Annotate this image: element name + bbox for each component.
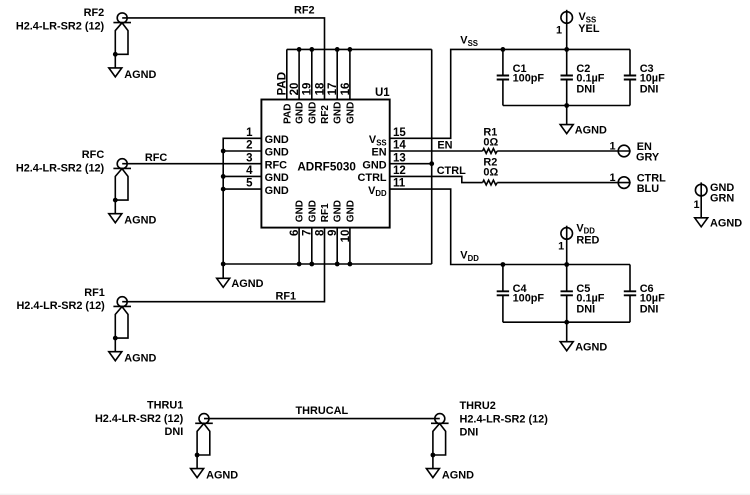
svg-text:0Ω: 0Ω xyxy=(483,137,498,149)
ground AGND VDD bank xyxy=(560,322,607,353)
U1 pin 5 label GND xyxy=(246,178,289,197)
U1 pin 13 label GND xyxy=(362,152,405,171)
U1 bottom pin 9 label GND xyxy=(327,200,344,236)
svg-text:PAD: PAD xyxy=(282,104,293,124)
svg-text:RED: RED xyxy=(576,234,599,246)
wire VDD cap bottom rail xyxy=(503,321,630,323)
test point EN xyxy=(609,141,659,164)
U1 pin 14 label EN xyxy=(371,140,406,159)
svg-text:GND: GND xyxy=(265,147,289,159)
wire PAD stub xyxy=(286,49,288,99)
svg-text:DNI: DNI xyxy=(165,426,184,438)
connector RF2 xyxy=(16,7,131,54)
wire RF2 net from connector to pin 18 xyxy=(122,18,324,100)
svg-text:GRN: GRN xyxy=(710,192,734,204)
svg-text:DNI: DNI xyxy=(640,304,659,316)
capacitor C4 xyxy=(497,265,545,323)
svg-text:AGND: AGND xyxy=(231,278,263,290)
test point VSS xyxy=(556,10,600,50)
capacitor C3 xyxy=(624,49,665,105)
svg-text:BLU: BLU xyxy=(637,183,660,195)
svg-text:THRU2: THRU2 xyxy=(460,400,496,412)
svg-text:1: 1 xyxy=(246,127,253,139)
wire pin 1 stub and left GND bus xyxy=(223,138,261,264)
svg-text:AGND: AGND xyxy=(124,353,156,365)
svg-text:GND: GND xyxy=(295,102,306,124)
svg-text:GND: GND xyxy=(333,200,344,222)
junction left bus xyxy=(221,149,226,154)
svg-text:AGND: AGND xyxy=(710,218,742,230)
svg-text:DNI: DNI xyxy=(640,84,659,96)
ground AGND bottom bus xyxy=(217,264,264,290)
ground AGND RF1 xyxy=(109,338,157,365)
svg-text:THRU1: THRU1 xyxy=(147,400,183,412)
junction bottom bus left xyxy=(221,262,226,267)
resistor R1 xyxy=(483,127,499,154)
svg-text:RF2: RF2 xyxy=(294,5,315,17)
svg-text:THRUCAL: THRUCAL xyxy=(295,405,348,417)
svg-text:RFC: RFC xyxy=(265,159,288,171)
wire pin 5 stub xyxy=(223,188,261,190)
svg-text:RFC: RFC xyxy=(145,152,168,164)
svg-text:15: 15 xyxy=(393,127,406,139)
svg-text:1: 1 xyxy=(693,199,699,211)
svg-text:AGND: AGND xyxy=(124,69,156,81)
svg-text:RFC: RFC xyxy=(82,149,105,161)
svg-text:GRY: GRY xyxy=(636,152,660,164)
U1 top pin 18 label RF2 xyxy=(314,82,331,124)
junction THRU1 shield xyxy=(195,453,200,458)
junction left bus xyxy=(221,174,226,179)
junction VDD rail C5 xyxy=(564,262,569,267)
junction bottom bus xyxy=(309,262,314,267)
U1 pin 12 label CTRL xyxy=(358,165,406,184)
ground AGND RFC xyxy=(109,200,157,227)
junction left bus xyxy=(221,187,226,192)
junction top bus xyxy=(297,47,302,52)
junction bottom bus xyxy=(335,262,340,267)
svg-text:14: 14 xyxy=(393,140,406,152)
svg-text:U1: U1 xyxy=(375,87,390,99)
svg-text:2: 2 xyxy=(246,140,252,152)
svg-text:VDD: VDD xyxy=(460,250,479,264)
U1 pin 3 label RFC xyxy=(246,152,287,171)
svg-text:GND: GND xyxy=(307,102,318,124)
wire VDD from pin 11 to rail xyxy=(390,189,630,264)
svg-text:EN: EN xyxy=(371,147,386,159)
wire EN from pin 14 to test point xyxy=(390,150,631,152)
wire pin 4 stub xyxy=(223,175,261,177)
wire CTRL from pin 12 to test point xyxy=(390,176,631,182)
svg-text:5: 5 xyxy=(246,178,253,190)
wire VSS cap bottom rail xyxy=(503,105,630,107)
wire THRUCAL net xyxy=(204,418,440,420)
junction VSS bottom rail C2 xyxy=(564,103,569,108)
junction VSS rail C2 xyxy=(564,47,569,52)
wire top pin stub xyxy=(311,49,313,99)
svg-text:DNI: DNI xyxy=(460,427,479,439)
wire RF1 net from pin 8 to connector xyxy=(122,228,324,302)
wire pin 2 stub xyxy=(223,150,261,152)
U1 bottom pin 8 label RF1 xyxy=(314,203,331,236)
svg-text:H2.4-LR-SR2 (12): H2.4-LR-SR2 (12) xyxy=(16,163,105,175)
U1 top pin 19 label GND xyxy=(302,83,319,124)
junction bottom bus xyxy=(348,262,353,267)
svg-text:1: 1 xyxy=(609,172,615,184)
junction pin 13 GND xyxy=(429,161,434,166)
svg-text:VSS: VSS xyxy=(369,134,387,147)
test point GND xyxy=(693,182,734,218)
wire top GND bus xyxy=(287,48,432,50)
svg-text:RF1: RF1 xyxy=(320,203,331,222)
svg-text:0.1µF: 0.1µF xyxy=(576,72,604,84)
capacitor C6 xyxy=(624,265,665,323)
ground AGND VSS bank xyxy=(560,106,607,137)
capacitor C5 xyxy=(561,265,605,323)
svg-text:DNI: DNI xyxy=(576,304,595,316)
wire top pin stub xyxy=(298,49,300,99)
U1 top pin 20 label GND xyxy=(289,83,306,124)
svg-text:GND: GND xyxy=(295,200,306,222)
svg-text:GND: GND xyxy=(333,102,344,124)
svg-text:H2.4-LR-SR2 (12): H2.4-LR-SR2 (12) xyxy=(16,300,105,312)
U1 bottom pin 6 label GND xyxy=(289,200,306,236)
svg-text:GND: GND xyxy=(345,102,356,124)
svg-text:H2.4-LR-SR2 (12): H2.4-LR-SR2 (12) xyxy=(95,413,184,425)
IC U1 ADRF5030 body xyxy=(261,87,390,228)
svg-text:GND: GND xyxy=(265,172,289,184)
junction RFC shield xyxy=(113,198,118,203)
svg-text:RF1: RF1 xyxy=(84,287,105,299)
connector THRU2 xyxy=(431,400,548,455)
svg-text:CTRL: CTRL xyxy=(358,172,387,184)
svg-text:GND: GND xyxy=(307,200,318,222)
wire top pin stub xyxy=(336,49,338,99)
svg-text:11: 11 xyxy=(393,178,406,190)
svg-text:AGND: AGND xyxy=(575,124,607,136)
svg-text:YEL: YEL xyxy=(578,23,600,35)
capacitor C2 xyxy=(561,49,605,105)
svg-text:CTRL: CTRL xyxy=(437,165,466,177)
junction top bus xyxy=(309,47,314,52)
svg-text:AGND: AGND xyxy=(575,341,607,353)
svg-text:DNI: DNI xyxy=(576,84,595,96)
capacitor C1 xyxy=(497,49,545,105)
svg-text:GND: GND xyxy=(362,159,386,171)
svg-text:RF2: RF2 xyxy=(320,105,331,124)
junction RF2 shield xyxy=(113,52,118,57)
svg-text:100pF: 100pF xyxy=(513,292,545,304)
junction top bus xyxy=(348,47,353,52)
test point CTRL xyxy=(609,172,666,195)
svg-text:AGND: AGND xyxy=(124,215,156,227)
svg-text:AGND: AGND xyxy=(442,470,474,482)
svg-text:GND: GND xyxy=(265,134,289,146)
test point VDD xyxy=(558,222,599,264)
wire bottom pin stub xyxy=(298,228,300,264)
U1 pin 15 label VSS xyxy=(369,127,406,148)
U1 pin 1 label GND xyxy=(246,127,289,146)
svg-text:VDD: VDD xyxy=(368,185,387,198)
svg-text:13: 13 xyxy=(393,152,406,164)
U1 pin 4 label GND xyxy=(246,165,289,184)
svg-text:H2.4-LR-SR2 (12): H2.4-LR-SR2 (12) xyxy=(460,414,549,426)
U1 bottom pin 7 label GND xyxy=(302,200,319,236)
wire bottom GND bus xyxy=(223,263,432,265)
connector THRU1 xyxy=(95,400,213,455)
U1 bottom pin 10 label GND xyxy=(340,200,357,242)
svg-text:1: 1 xyxy=(558,241,564,253)
svg-text:0Ω: 0Ω xyxy=(483,166,498,178)
U1 pin 11 label VDD xyxy=(368,178,406,199)
svg-text:EN: EN xyxy=(437,139,452,151)
svg-text:H2.4-LR-SR2 (12): H2.4-LR-SR2 (12) xyxy=(16,21,105,33)
wire bottom pin stub xyxy=(311,228,313,264)
svg-text:12: 12 xyxy=(393,165,406,177)
svg-text:3: 3 xyxy=(246,152,252,164)
ground AGND RF2 xyxy=(109,54,157,81)
ground AGND GND test point xyxy=(695,218,743,230)
junction RF1 shield xyxy=(113,336,118,341)
connector RFC xyxy=(16,149,131,200)
svg-text:4: 4 xyxy=(246,165,253,177)
svg-text:RF1: RF1 xyxy=(276,290,297,302)
wire top pin stub xyxy=(349,49,351,99)
junction VSS rail C1 xyxy=(501,47,506,52)
svg-text:100pF: 100pF xyxy=(513,72,545,84)
U1 top pin 16 label GND xyxy=(340,83,357,124)
junction THRU2 shield xyxy=(431,453,436,458)
svg-text:GND: GND xyxy=(265,185,289,197)
resistor R2 xyxy=(483,156,499,185)
svg-text:AGND: AGND xyxy=(206,470,238,482)
wire pin 13 GND stub xyxy=(390,163,432,165)
svg-text:RF2: RF2 xyxy=(84,7,105,19)
junction bottom bus xyxy=(297,262,302,267)
connector RF1 xyxy=(16,287,131,338)
wire right GND vertical xyxy=(431,49,433,264)
junction top bus xyxy=(335,47,340,52)
U1 pin 2 label GND xyxy=(246,140,289,159)
U1 top pin 17 label GND xyxy=(327,83,344,124)
svg-text:1: 1 xyxy=(609,141,615,153)
svg-text:10µF: 10µF xyxy=(640,292,665,304)
svg-text:10µF: 10µF xyxy=(640,72,665,84)
svg-text:1: 1 xyxy=(556,24,562,36)
junction VDD rail C4 xyxy=(501,262,506,267)
junction VDD bottom rail C5 xyxy=(564,320,569,325)
ground AGND THRU2 xyxy=(426,455,474,482)
wire bottom pin stub xyxy=(336,228,338,264)
svg-text:0.1µF: 0.1µF xyxy=(576,292,604,304)
wire bottom pin stub xyxy=(349,228,351,264)
svg-text:VSS: VSS xyxy=(460,35,478,49)
svg-text:GND: GND xyxy=(345,200,356,222)
U1 top pin PAD label PAD xyxy=(277,72,294,124)
wire VSS from pin 15 to rail xyxy=(390,49,630,138)
wire RFC net from pin 3 to connector xyxy=(122,163,261,165)
ground AGND THRU1 xyxy=(191,455,239,482)
svg-text:ADRF5030: ADRF5030 xyxy=(297,160,356,173)
